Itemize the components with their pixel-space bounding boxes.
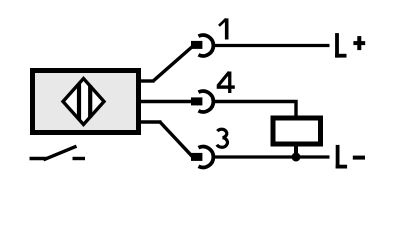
- sensor body box: [33, 71, 139, 133]
- pin number 3: [217, 129, 228, 147]
- NO switch contact symbol: [30, 146, 86, 160]
- wire stub pin3: [141, 120, 162, 123]
- pin number 1: [219, 18, 229, 39]
- sensor symbol left bar: [77, 84, 81, 119]
- wire pin4 to load: [213, 102, 296, 119]
- wire stub pin1: [141, 79, 155, 82]
- junction dot: [292, 153, 301, 162]
- wire pin1 to L+: [213, 44, 330, 47]
- connector pin 3: [191, 147, 213, 168]
- wire pin3 to L-: [213, 155, 330, 158]
- load resistor: [273, 118, 321, 144]
- sensor symbol right bar: [88, 86, 92, 118]
- connector pin 4: [191, 91, 213, 112]
- wire load to L- line: [294, 144, 298, 158]
- wire diagonal to pin1: [153, 46, 193, 81]
- wire diagonal to pin3: [160, 122, 193, 157]
- connector pin 1: [191, 35, 213, 56]
- label L-: [336, 145, 365, 169]
- label L+: [335, 33, 365, 58]
- proximity sensor diamond symbol: [63, 79, 104, 125]
- pin number 4: [217, 72, 235, 94]
- wire to pin4: [141, 100, 192, 103]
